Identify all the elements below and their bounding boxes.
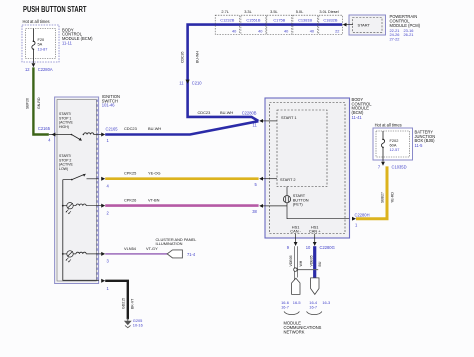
LED indicator 2 xyxy=(63,253,67,255)
svg-text:CAN -: CAN - xyxy=(290,229,301,234)
svg-text:YE-RD: YE-RD xyxy=(391,192,395,203)
transistor START BUTTON (FET) xyxy=(283,196,290,203)
svg-text:BU: BU xyxy=(318,261,322,266)
svg-text:16-7: 16-7 xyxy=(309,304,317,309)
svg-text:CPK25: CPK25 xyxy=(124,171,136,176)
body control module fuse box (dashed inner) xyxy=(26,29,56,59)
svg-text:START 1: START 1 xyxy=(281,115,297,120)
svg-text:LOW): LOW) xyxy=(59,167,68,171)
coil (LED 2) xyxy=(76,252,86,254)
svg-text:CPK26: CPK26 xyxy=(124,198,136,203)
svg-text:38: 38 xyxy=(252,209,257,214)
CAN leads through BCM bottom xyxy=(296,234,315,242)
common return wire inside ignition switch xyxy=(63,180,99,281)
node (lamp2 tap) xyxy=(62,253,64,255)
svg-text:13-87: 13-87 xyxy=(38,46,48,51)
svg-text:C2165: C2165 xyxy=(38,126,51,131)
svg-text:CDC23: CDC23 xyxy=(198,110,211,115)
svg-text:27-22: 27-22 xyxy=(390,36,400,41)
svg-text:C1035D: C1035D xyxy=(392,164,407,169)
svg-text:C1381B: C1381B xyxy=(298,18,312,23)
svg-text:C1551B: C1551B xyxy=(246,18,260,23)
svg-text:10: 10 xyxy=(306,245,311,250)
svg-text:11: 11 xyxy=(179,81,184,86)
svg-text:2.7L: 2.7L xyxy=(221,9,229,14)
wire VLN54 VT-GY xyxy=(105,253,167,255)
svg-text:11-11: 11-11 xyxy=(62,40,73,45)
wire switch1 to pin 1 xyxy=(93,134,98,136)
svg-text:PUSH BUTTON START: PUSH BUTTON START xyxy=(23,5,87,14)
inline connector C210 arrow xyxy=(186,80,190,84)
wire CDC23 BU-WH trunk: rail to PCM, down to BCM pin 11 xyxy=(188,25,343,121)
svg-text:SBP26: SBP26 xyxy=(26,98,30,109)
pin arrow C2165 pin 3 (pointing right) xyxy=(101,252,105,256)
svg-text:16-7: 16-7 xyxy=(281,304,289,309)
svg-text:12-57: 12-57 xyxy=(390,147,400,152)
pin arrow ground pin (pointing right) xyxy=(101,279,105,283)
battery junction box xyxy=(373,128,413,160)
svg-text:BU-WH: BU-WH xyxy=(196,51,200,63)
svg-text:START: START xyxy=(358,22,371,27)
svg-text:(FET): (FET) xyxy=(293,202,304,207)
svg-text:C1832B: C1832B xyxy=(323,18,337,23)
brace right xyxy=(307,312,322,315)
pin arrow BCM pin 5 (pointing left) xyxy=(259,177,263,181)
svg-text:C2280B: C2280B xyxy=(242,111,257,116)
START sub-box (PCM) xyxy=(353,18,383,33)
svg-text:3.3L: 3.3L xyxy=(244,9,252,14)
svg-text:BU-WH: BU-WH xyxy=(220,110,233,115)
brace left xyxy=(284,312,299,315)
ignition switch connector edge (castellation) xyxy=(96,100,98,282)
svg-text:VT-GY: VT-GY xyxy=(146,246,158,251)
node (lamp1 tap) xyxy=(62,205,64,207)
coil (switch 1) xyxy=(83,134,84,135)
svg-text:26-21: 26-21 xyxy=(404,32,414,37)
pin arrow BCM pin 11 (pointing left) xyxy=(259,119,263,123)
svg-text:Hot at all times: Hot at all times xyxy=(375,122,402,127)
svg-text:HIGH): HIGH) xyxy=(59,125,69,129)
pin arrow at C2280A (down) xyxy=(32,59,34,64)
svg-text:10-16: 10-16 xyxy=(133,322,143,327)
off-page connector CAN+ (point down) xyxy=(311,278,319,295)
wire SBP26 GN-RD (green) xyxy=(33,67,48,134)
svg-text:SBB27: SBB27 xyxy=(381,192,385,203)
body control module box (right) xyxy=(265,98,350,238)
off-page connector (cluster illumination) xyxy=(167,250,182,258)
svg-text:C2280G: C2280G xyxy=(320,245,335,250)
svg-text:BU-WH: BU-WH xyxy=(148,126,161,131)
svg-text:C175B: C175B xyxy=(273,18,285,23)
svg-text:12: 12 xyxy=(25,67,30,72)
wire VDB05 BU (blue CAN wire) xyxy=(313,246,316,278)
svg-text:Hot at all times: Hot at all times xyxy=(23,19,50,24)
junction (twisted pair link) xyxy=(296,269,318,271)
svg-text:22: 22 xyxy=(335,28,339,33)
svg-text:(BCM): (BCM) xyxy=(352,110,364,115)
off-page connector CAN- (peak up) xyxy=(292,278,300,294)
svg-text:VDB06: VDB06 xyxy=(289,255,293,266)
coil (LED 1) xyxy=(76,204,86,206)
svg-text:VDB05: VDB05 xyxy=(309,255,313,266)
svg-text:11: 11 xyxy=(253,122,258,127)
svg-text:C210: C210 xyxy=(192,81,203,86)
wire VDB06 WH (white CAN wire) xyxy=(293,246,295,279)
pin arrow CAN+ (down) xyxy=(313,242,317,246)
pin arrow C2165 pin 1 (pointing right) xyxy=(101,133,105,137)
svg-text:NETWORK: NETWORK xyxy=(284,329,305,334)
svg-text:3.5L: 3.5L xyxy=(270,9,278,14)
svg-text:C2280H: C2280H xyxy=(355,212,370,217)
ground G205 xyxy=(127,318,129,322)
wire SBB27 YE-RD (yellow from BJB) xyxy=(356,166,387,218)
svg-text:5.0L: 5.0L xyxy=(296,9,304,14)
pin arrow BCM pin 38 (pointing left) xyxy=(259,204,263,208)
svg-text:VT-BN: VT-BN xyxy=(148,198,160,203)
body control module fuse box (dashed outer) xyxy=(22,25,59,62)
wire GD215 BK-VT (black ground wire) xyxy=(105,281,128,320)
wire CPK26 VT-BN (violet) xyxy=(105,204,258,207)
fuse F20 5A xyxy=(32,29,35,59)
svg-text:GD215: GD215 xyxy=(121,298,125,309)
svg-text:GN-RD: GN-RD xyxy=(37,97,41,109)
switch 1 (start/stop 1) xyxy=(71,134,73,136)
pin arrow C2280H (pointing right) xyxy=(352,217,356,221)
wire CDC23 BU-WH (ignition to BCM) xyxy=(105,121,258,134)
pin arrow C1035D (down) xyxy=(382,157,384,162)
wire CPK25 YE-OG (yellow) xyxy=(105,177,258,180)
svg-text:71-4: 71-4 xyxy=(187,252,196,257)
pin arrow C2165 pin 4 yellow (pointing right) xyxy=(101,177,105,181)
svg-text:CDC23: CDC23 xyxy=(124,126,137,131)
pin arrow into ignition switch (left, pointing left) xyxy=(49,134,72,136)
fuse F202 60A xyxy=(381,131,384,157)
svg-text:YE-OG: YE-OG xyxy=(148,171,161,176)
svg-text:VLN54: VLN54 xyxy=(124,246,137,251)
svg-text:ILLUMINATION: ILLUMINATION xyxy=(156,241,183,246)
svg-text:101-46: 101-46 xyxy=(102,103,115,108)
svg-text:16-3: 16-3 xyxy=(322,300,330,305)
pin arrow C2165 pin 2 violet (pointing right) xyxy=(101,204,105,208)
LED indicator 1 xyxy=(63,205,67,207)
svg-text:CAN +: CAN + xyxy=(309,229,321,234)
pin arrow PCM (pointing left) xyxy=(343,23,347,27)
svg-text:BK-VT: BK-VT xyxy=(131,298,135,309)
START1/START2 sub-box (BCM) xyxy=(277,110,327,187)
svg-text:C2280A: C2280A xyxy=(38,67,53,72)
switch 2 xyxy=(63,179,72,181)
svg-text:11-41: 11-41 xyxy=(352,115,363,120)
ignition switch box xyxy=(55,97,99,284)
svg-text:WH: WH xyxy=(299,260,303,266)
powertrain control module box xyxy=(349,15,386,35)
svg-text:3.0L Diesel: 3.0L Diesel xyxy=(319,9,338,14)
pin arrow CAN- (down) xyxy=(294,242,298,246)
svg-text:CDC26: CDC26 xyxy=(181,51,185,63)
svg-text:C2165: C2165 xyxy=(106,126,119,131)
svg-text:16-5: 16-5 xyxy=(293,300,301,305)
svg-text:11-5: 11-5 xyxy=(415,143,424,148)
svg-text:C1232B: C1232B xyxy=(220,18,234,23)
svg-text:START 2: START 2 xyxy=(280,177,296,182)
